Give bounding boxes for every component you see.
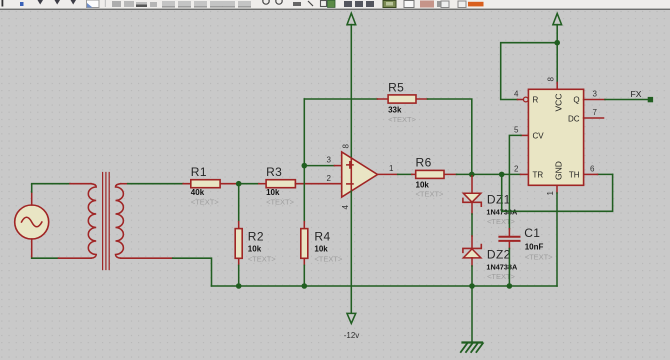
wire: R3 to op-amp pin 2 bbox=[295, 183, 341, 185]
wire: node to DZ1 bbox=[471, 174, 473, 193]
svg-text:DC: DC bbox=[568, 115, 580, 124]
svg-text:<TEXT>: <TEXT> bbox=[388, 115, 417, 124]
svg-text:<TEXT>: <TEXT> bbox=[248, 255, 277, 264]
node: R1/R2/R3 junction bbox=[236, 181, 242, 187]
wire: 555 GND pin 1 to rail bbox=[556, 185, 558, 286]
svg-text:TH: TH bbox=[569, 171, 580, 180]
svg-text:<TEXT>: <TEXT> bbox=[525, 253, 554, 262]
svg-text:<TEXT>: <TEXT> bbox=[487, 217, 516, 226]
wire: junction to R3 bbox=[239, 183, 259, 185]
power +12V arrow (555) bbox=[553, 14, 562, 43]
wire: R6 to output node bbox=[457, 173, 472, 175]
ground bbox=[461, 343, 483, 353]
wire: secondary bottom to ground rail bbox=[173, 258, 212, 286]
svg-text:10k: 10k bbox=[266, 188, 280, 197]
wire: C1 bottom to rail bbox=[508, 241, 510, 286]
node: TR/TH loop junction bbox=[499, 172, 505, 178]
svg-text:7: 7 bbox=[593, 108, 598, 117]
wire: TR-TH loop under chip bbox=[502, 174, 613, 211]
zener diode DZ1 bbox=[463, 193, 481, 206]
svg-text:FX: FX bbox=[631, 89, 642, 99]
transformer TR1 bbox=[88, 173, 123, 270]
resistor R2 bbox=[235, 222, 242, 266]
wire: transformer secondary bottom lead bbox=[121, 257, 173, 259]
wire: source bottom pin bbox=[31, 239, 33, 258]
wire: source top pin bbox=[31, 192, 33, 205]
svg-text:2: 2 bbox=[327, 174, 332, 183]
node: feedback to pin 3 bbox=[302, 163, 308, 169]
wire: DZ2 to rail bbox=[471, 258, 473, 286]
zener diode DZ2 bbox=[463, 245, 481, 258]
svg-text:6: 6 bbox=[590, 164, 595, 173]
wire: DC stub pin 7 bbox=[584, 117, 604, 119]
capacitor C1 bbox=[499, 237, 519, 241]
svg-text:Q: Q bbox=[573, 96, 579, 105]
svg-text:<TEXT>: <TEXT> bbox=[266, 198, 295, 207]
node: C1 on rail bbox=[507, 283, 513, 289]
svg-text:40k: 40k bbox=[191, 188, 205, 197]
wire: DZ1 to DZ2 bbox=[471, 202, 473, 248]
svg-text:<TEXT>: <TEXT> bbox=[314, 255, 343, 264]
svg-text:1: 1 bbox=[389, 164, 394, 173]
node: VCC/reset branch bbox=[554, 40, 560, 46]
svg-text:8: 8 bbox=[547, 77, 556, 82]
op-amp U1 bbox=[342, 152, 378, 197]
svg-text:-12v: -12v bbox=[344, 331, 360, 340]
wire: op-amp to -12V bbox=[350, 191, 352, 313]
svg-text:R5: R5 bbox=[388, 81, 404, 95]
svg-text:5: 5 bbox=[514, 125, 519, 134]
wire: transformer primary top lead bbox=[70, 183, 91, 185]
svg-text:R6: R6 bbox=[416, 156, 432, 170]
wire: feedback vertical (R5 left / pin3 / R4 top) bbox=[303, 99, 305, 222]
svg-text:R: R bbox=[533, 96, 539, 105]
power -12v arrow bbox=[344, 313, 360, 340]
svg-text:10nF: 10nF bbox=[525, 243, 544, 252]
wire: R2 top bbox=[238, 184, 240, 222]
toolbar strip bbox=[0, 0, 670, 10]
svg-text:VCC: VCC bbox=[554, 94, 564, 112]
AC source V1 bbox=[15, 205, 49, 239]
wire: source bottom to transformer bbox=[32, 257, 59, 259]
svg-text:4: 4 bbox=[514, 89, 519, 98]
wire: rail to ground symbol bbox=[471, 286, 473, 342]
resistor R4 bbox=[301, 222, 308, 266]
svg-text:TR: TR bbox=[533, 171, 544, 180]
wire: source top to transformer primary bbox=[32, 184, 70, 192]
wire: reset branch to pin 4 bbox=[501, 43, 558, 100]
svg-text:4: 4 bbox=[341, 205, 350, 210]
svg-text:3: 3 bbox=[327, 156, 332, 165]
svg-text:10k: 10k bbox=[314, 245, 328, 254]
resistor R1 bbox=[183, 180, 239, 188]
svg-text:R3: R3 bbox=[266, 165, 282, 179]
svg-text:3: 3 bbox=[593, 89, 598, 98]
resistor R3 bbox=[259, 180, 296, 188]
wire: R5 right loop down to output node bbox=[428, 99, 472, 174]
wire: R5 left loop bbox=[304, 98, 377, 100]
svg-text:2: 2 bbox=[514, 164, 519, 173]
wire: output to R6 bbox=[398, 173, 412, 175]
wire: TH green lead bbox=[598, 173, 613, 175]
pin 4 inversion bubble (555 R) bbox=[523, 97, 528, 102]
svg-text:GND: GND bbox=[554, 161, 564, 180]
node: output/R5/R6/DZ1 junction bbox=[469, 172, 475, 178]
svg-text:C1: C1 bbox=[524, 226, 540, 240]
svg-text:R4: R4 bbox=[314, 230, 330, 244]
wire: Q output to FX bbox=[584, 99, 648, 101]
svg-text:R2: R2 bbox=[248, 230, 264, 244]
svg-text:DZ1: DZ1 bbox=[487, 193, 511, 207]
wire: R4 bottom to rail bbox=[303, 265, 305, 286]
svg-text:8: 8 bbox=[342, 144, 351, 149]
wire: R2 bottom to rail bbox=[238, 265, 240, 286]
wire: transformer primary bottom lead bbox=[59, 257, 92, 259]
wire: pin 3 red stub bbox=[334, 165, 341, 167]
svg-text:<TEXT>: <TEXT> bbox=[416, 190, 445, 199]
node: DZ2/ground on rail bbox=[469, 283, 475, 289]
svg-text:DZ2: DZ2 bbox=[487, 248, 511, 262]
svg-text:<TEXT>: <TEXT> bbox=[191, 198, 220, 207]
resistor R5 bbox=[377, 95, 427, 103]
svg-text:CV: CV bbox=[533, 132, 545, 141]
terminal FX bbox=[648, 97, 653, 102]
node: R4 on rail bbox=[302, 283, 308, 289]
wire: pin 3 input bbox=[304, 165, 334, 167]
svg-text:10k: 10k bbox=[248, 245, 262, 254]
svg-text:1: 1 bbox=[546, 191, 555, 196]
wire: VCC down to chip pin 8 bbox=[556, 43, 558, 90]
svg-text:33k: 33k bbox=[388, 106, 402, 115]
wire: TH red stub bbox=[584, 173, 598, 175]
IC 555 timer bbox=[528, 89, 583, 185]
svg-text:<TEXT>: <TEXT> bbox=[487, 272, 516, 281]
wire: transformer secondary top lead bbox=[121, 183, 128, 185]
resistor R6 bbox=[412, 170, 457, 178]
wire: ground rail bbox=[212, 285, 558, 287]
wire: output node to 555 TR bbox=[472, 173, 529, 175]
wire: secondary top to R1 bbox=[128, 183, 184, 185]
svg-text:10k: 10k bbox=[416, 181, 430, 190]
svg-text:R1: R1 bbox=[191, 165, 207, 179]
wire: CV lead to C1 bbox=[509, 135, 528, 236]
svg-text:1N4738A: 1N4738A bbox=[486, 263, 518, 272]
node: R2 on rail bbox=[236, 283, 242, 289]
power +12V arrow (op-amp) bbox=[347, 13, 356, 158]
wire: op-amp output stub pin 1 bbox=[378, 173, 398, 175]
